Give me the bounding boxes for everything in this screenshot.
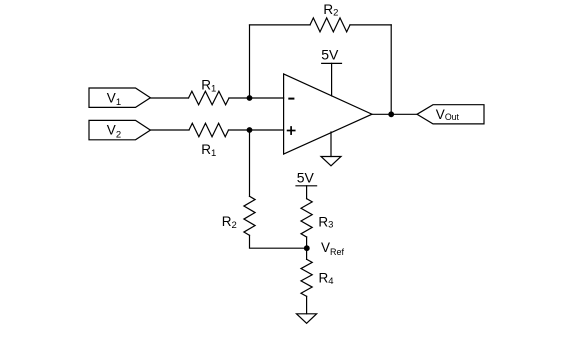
terminal V2 bbox=[89, 120, 150, 139]
wire feedback right vertical bbox=[390, 25, 392, 114]
5V supply bar (op-amp) bbox=[322, 62, 342, 64]
node A: inverting input junction bbox=[247, 95, 253, 101]
resistor R2 (feedback) bbox=[310, 18, 350, 32]
wire R2 bottom to VRef node bbox=[250, 235, 307, 248]
terminal VOut bbox=[417, 105, 484, 124]
wire R1 to op-amp plus input bbox=[229, 129, 284, 131]
resistor R2 (vertical) bbox=[244, 196, 255, 235]
resistor R1 (top) bbox=[189, 91, 230, 105]
wire V1 to R1 bbox=[150, 97, 188, 99]
ground (op-amp) bbox=[321, 157, 341, 166]
op-amp minus sign bbox=[289, 98, 293, 100]
ground (bottom) bbox=[297, 314, 317, 324]
resistor R4 bbox=[301, 259, 312, 296]
wire 5V to op-amp bbox=[331, 63, 333, 96]
wire feedback left vertical bbox=[249, 25, 251, 98]
wire VRef node to R4 bbox=[306, 248, 308, 259]
wire op-amp to ground bbox=[330, 132, 332, 157]
node: output junction bbox=[388, 111, 394, 117]
svg-text:5V: 5V bbox=[297, 170, 315, 186]
op-amp U1 bbox=[284, 74, 372, 154]
wire feedback top right bbox=[350, 24, 391, 26]
wire V2 to R1 bbox=[150, 129, 189, 131]
terminal V1 bbox=[89, 88, 150, 107]
wire R3 to VRef node bbox=[306, 237, 308, 248]
resistor R1 (bottom) bbox=[189, 123, 229, 137]
5V supply bar (R3) bbox=[296, 185, 317, 187]
op-amp plus sign bbox=[288, 130, 295, 132]
wire plus node down to R2 bbox=[249, 130, 251, 196]
resistor R3 bbox=[301, 199, 312, 237]
wire R1 to op-amp minus input bbox=[229, 97, 284, 99]
wire 5V to R3 bbox=[306, 186, 308, 199]
svg-text:5V: 5V bbox=[321, 46, 339, 62]
node VRef junction bbox=[304, 245, 310, 251]
wire feedback top left bbox=[250, 24, 311, 26]
wire op-amp output bbox=[372, 113, 417, 115]
wire R4 to ground bbox=[306, 296, 308, 314]
node B: non-inverting input junction bbox=[247, 127, 253, 133]
